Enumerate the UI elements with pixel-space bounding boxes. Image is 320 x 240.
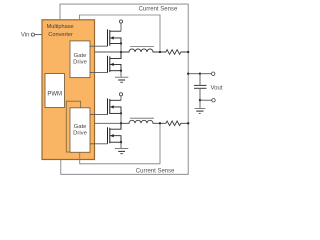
resistor R1 (sense): [160, 50, 188, 55]
node Q4 source junction: [120, 141, 122, 143]
wire converter to switch node phase 1: [95, 51, 122, 53]
phase 2 input terminal: [119, 93, 122, 96]
svg-text:Current Sense: Current Sense: [139, 7, 178, 13]
node output rail Vout branch: [187, 73, 189, 75]
Vout- terminal: [212, 99, 215, 102]
current sense wire top inner: [79, 15, 160, 52]
node R1 output: [187, 51, 189, 53]
wire to Vout+ terminal: [200, 73, 212, 75]
hidden phase card behind gate drive 2: [66, 101, 80, 152]
wire rail to capacitor top: [188, 73, 200, 75]
svg-text:Drive: Drive: [73, 60, 87, 66]
node switch phase 1: [120, 51, 122, 53]
node capacitor bottom: [199, 99, 201, 101]
node Q2 source junction: [120, 70, 122, 72]
wire Q3 source to switch node: [120, 113, 122, 129]
node L1 to R1 (current sense tap): [159, 51, 161, 53]
node Q3 source junction: [120, 112, 122, 114]
inductor L1: [121, 46, 160, 52]
Vin terminal: [31, 33, 34, 36]
wire converter to switch node phase 2: [95, 122, 122, 124]
wire gate drive 2 to Q3 gate: [90, 114, 108, 116]
wire capacitor bottom to ground: [199, 100, 201, 108]
transistor Q2 (phase 1 low side): [108, 52, 122, 73]
node Q1 source junction: [120, 42, 122, 44]
transistor Q3 (phase 2 high side): [108, 98, 122, 114]
resistor R2 (sense): [160, 121, 188, 126]
node L2 to R2 (current sense tap): [159, 122, 161, 124]
wire Q1 source to switch node: [120, 44, 122, 59]
inductor L2: [121, 118, 160, 123]
svg-text:Gate: Gate: [74, 53, 87, 59]
PWM block: [45, 74, 65, 108]
wire gate drive 1 to Q2 gate: [90, 72, 108, 74]
transistor Q1 (phase 1 high side): [108, 29, 122, 46]
svg-text:Current Sense: Current Sense: [136, 168, 175, 174]
gate drive 2: [70, 108, 90, 153]
svg-text:Vout: Vout: [211, 85, 223, 91]
wire terminal to Q1 drain: [120, 23, 122, 31]
wire gate drive 2 to Q4 gate: [90, 143, 108, 145]
phase 1 input terminal: [119, 20, 122, 23]
svg-text:Converter: Converter: [48, 32, 73, 38]
transistor Q4 (phase 2 low side): [108, 123, 122, 144]
svg-text:Drive: Drive: [73, 131, 87, 137]
node R2 output: [187, 122, 189, 124]
node capacitor top: [199, 73, 201, 75]
svg-text:Multiphase: Multiphase: [47, 24, 74, 30]
Vout+ terminal: [212, 72, 215, 75]
capacitor C1 (output): [194, 74, 207, 101]
ground output: [195, 108, 206, 113]
ground phase 2: [115, 149, 128, 154]
svg-text:Gate: Gate: [74, 124, 87, 130]
gate drive 1: [70, 41, 90, 78]
converter block: [42, 20, 95, 160]
wire gate drive 1 to Q1 gate: [90, 45, 108, 47]
wire to Vout- terminal: [200, 99, 212, 101]
ground phase 1: [115, 77, 128, 82]
svg-text:PWM: PWM: [47, 91, 62, 97]
svg-text:Vin: Vin: [21, 33, 30, 39]
current sense wire bottom inner: [80, 123, 160, 164]
Multiphase Converter label: [47, 24, 74, 38]
node switch phase 2: [120, 122, 122, 124]
wire terminal to Q3 drain: [120, 96, 122, 100]
wire Vin to converter: [35, 34, 42, 36]
current sense loop top outer: [60, 4, 188, 174]
wire Q4 source to ground: [120, 142, 122, 148]
wire Q2 source to ground: [120, 71, 122, 77]
